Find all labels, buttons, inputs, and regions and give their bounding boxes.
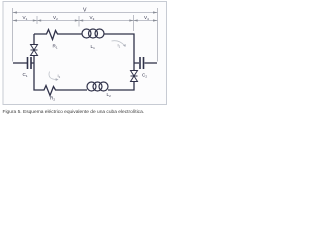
svg-text:I2: I2	[58, 73, 61, 79]
svg-text:V: V	[83, 8, 87, 14]
svg-text:Figura 5. Esquema eléctrico eq: Figura 5. Esquema eléctrico equivalente …	[3, 109, 145, 115]
svg-text:I1: I1	[118, 43, 121, 49]
